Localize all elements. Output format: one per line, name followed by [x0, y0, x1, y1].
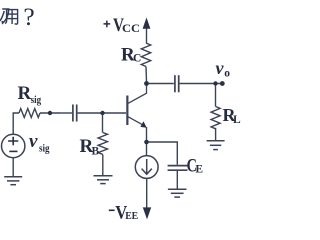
- ground (below vsig): [4, 177, 22, 185]
- svg-text:R: R: [18, 83, 32, 104]
- wire: collector node to output cap: [149, 83, 174, 85]
- ground (below CE): [168, 189, 187, 197]
- transistor Q1 (NPN): [127, 86, 146, 141]
- label: plus sign inside source: [8, 137, 18, 145]
- wire: to input cap: [60, 112, 72, 114]
- wire: RC bottom to collector node: [145, 67, 148, 82]
- label +VCC: [104, 15, 141, 36]
- svg-text:sig: sig: [31, 94, 42, 106]
- wire: emitter node to CE elbow: [149, 142, 178, 165]
- ground (below RB): [94, 176, 113, 184]
- svg-text:CC: CC: [122, 21, 140, 35]
- svg-text:?: ?: [23, 2, 34, 31]
- capacitor CC1 (input coupling): [73, 105, 77, 122]
- svg-text:o: o: [224, 68, 230, 80]
- node: RL junction dot: [213, 81, 217, 85]
- label RB: [80, 136, 100, 158]
- resistor RC: [141, 43, 150, 67]
- resistor Rsig: [19, 109, 40, 118]
- label RC: [121, 45, 141, 66]
- source vsig (circle): [2, 134, 25, 157]
- wire: emitter node to current source: [146, 144, 148, 156]
- svg-text:v: v: [216, 58, 225, 78]
- svg-text:B: B: [92, 146, 100, 158]
- wire: current source to -VEE arrow: [146, 178, 148, 207]
- resistor RL: [211, 86, 220, 141]
- resistor RB: [98, 133, 107, 155]
- svg-text:C: C: [133, 53, 141, 65]
- wire: base node down to RB: [102, 115, 104, 133]
- supply +VCC arrow: [143, 18, 151, 44]
- label CE: [187, 156, 204, 177]
- label vo: [216, 58, 231, 80]
- svg-text:sig: sig: [39, 143, 50, 155]
- label RL: [223, 105, 242, 126]
- wire: input elbow from source to Rsig: [13, 113, 19, 135]
- supply -VEE arrow: [143, 207, 151, 219]
- wire: output cap to vo terminal: [180, 83, 222, 85]
- label: minus sign inside source: [9, 150, 17, 152]
- label Rsig: [18, 83, 42, 106]
- current source I (circle with down arrow): [135, 156, 158, 179]
- node: emitter junction dot: [144, 140, 149, 145]
- node: base junction dot: [100, 111, 104, 115]
- svg-text:v: v: [29, 131, 38, 152]
- svg-text:E: E: [195, 164, 203, 176]
- label -VEE: [109, 202, 138, 223]
- wire: RB to ground: [102, 155, 104, 176]
- node: vo terminal dot: [220, 81, 225, 86]
- node: junction dot after Rsig: [48, 111, 52, 115]
- wire: input cap to base: [78, 112, 126, 114]
- ground (below RL): [207, 141, 225, 150]
- wire: Rsig to input node: [40, 112, 60, 114]
- capacitor CE: [168, 166, 188, 171]
- label vsig: [29, 131, 50, 155]
- node: collector junction dot: [144, 81, 149, 86]
- wire: source bottom to ground: [12, 158, 14, 177]
- label: Chinese text fragment (partial char): [0, 9, 9, 23]
- capacitor CC2 (output coupling): [175, 75, 179, 92]
- svg-text:EE: EE: [125, 210, 138, 222]
- wire: CE to ground: [176, 171, 178, 189]
- svg-text:L: L: [233, 114, 241, 126]
- label: Chinese char 用: [5, 10, 17, 25]
